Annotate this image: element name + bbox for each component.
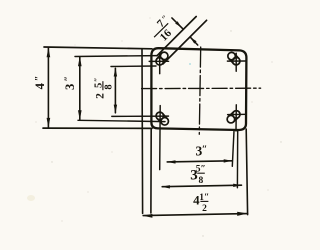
hole BL main circle xyxy=(156,112,164,120)
svg-text:2: 2 xyxy=(95,93,107,99)
3in bottom text xyxy=(196,143,208,158)
3in (vertical) bottom extension xyxy=(78,120,165,121)
top edge extension to 4in dim xyxy=(44,47,152,49)
left long extension (4-1/2) xyxy=(141,49,144,214)
centerline horizontal xyxy=(142,87,261,89)
pale smudge xyxy=(27,195,35,201)
2-5/8 top extension xyxy=(111,65,156,68)
hole TL crosshair xyxy=(149,60,168,62)
svg-text:2: 2 xyxy=(202,204,207,214)
bottom edge extension to 4in dim xyxy=(43,127,152,129)
plate outline xyxy=(151,48,246,130)
hole TR main circle xyxy=(232,57,240,65)
7/16 upper arrow xyxy=(172,18,183,29)
hole BL slot circle xyxy=(161,118,169,126)
svg-text:4: 4 xyxy=(33,82,47,89)
svg-text:8: 8 xyxy=(103,84,114,89)
svg-text:″: ″ xyxy=(64,76,75,82)
3in left text xyxy=(63,76,77,90)
svg-text:″: ″ xyxy=(92,77,102,82)
2-5/8 vertical dimension line xyxy=(114,68,116,113)
svg-text:″: ″ xyxy=(34,76,45,82)
7/16 slot extension line 2 xyxy=(163,20,207,64)
hole TL slot circle xyxy=(160,52,168,60)
right long extension (4-1/2) xyxy=(246,129,247,215)
svg-text:3: 3 xyxy=(63,84,77,90)
7/16 text xyxy=(146,13,180,47)
centerline vertical xyxy=(199,47,200,134)
right 3-5/8 extension xyxy=(236,130,238,188)
hole BR slot circle xyxy=(227,115,235,123)
hole slot tangents xyxy=(163,58,168,63)
cyan scanner speck xyxy=(189,63,191,65)
4in dimension line xyxy=(47,48,49,127)
3in bottom dimension line xyxy=(167,161,232,162)
hole BR main circle xyxy=(233,111,241,119)
2-5/8 text xyxy=(92,77,114,98)
svg-text:8: 8 xyxy=(199,176,204,186)
hole TR crosshair xyxy=(227,60,246,62)
scan speckles xyxy=(35,17,281,236)
hole TL main circle xyxy=(156,58,164,66)
right hole crosshair vertical / 3in extension xyxy=(235,105,237,131)
3in vertical dimension line xyxy=(79,57,81,119)
4-1/2 text xyxy=(193,193,209,214)
4in text xyxy=(33,76,47,90)
hole TR slot circle xyxy=(228,52,236,60)
4-1/2 bottom dimension line xyxy=(143,214,247,216)
7/16 lower arrow xyxy=(191,38,198,45)
hole BL crosshair horizontal (also 2-5/8 bottom extension) xyxy=(112,115,169,117)
svg-text:″: ″ xyxy=(202,145,208,156)
3in (vertical) top extension xyxy=(75,55,157,58)
left hole crosshair vertical / 3in extension xyxy=(159,106,162,170)
3-5/8 text xyxy=(190,165,205,186)
hole BR crosshair horizontal xyxy=(228,113,247,115)
7/16 slot extension line 1 xyxy=(157,17,196,56)
3-5/8 bottom dimension line xyxy=(162,185,241,187)
left plate edge extension below xyxy=(150,129,152,214)
